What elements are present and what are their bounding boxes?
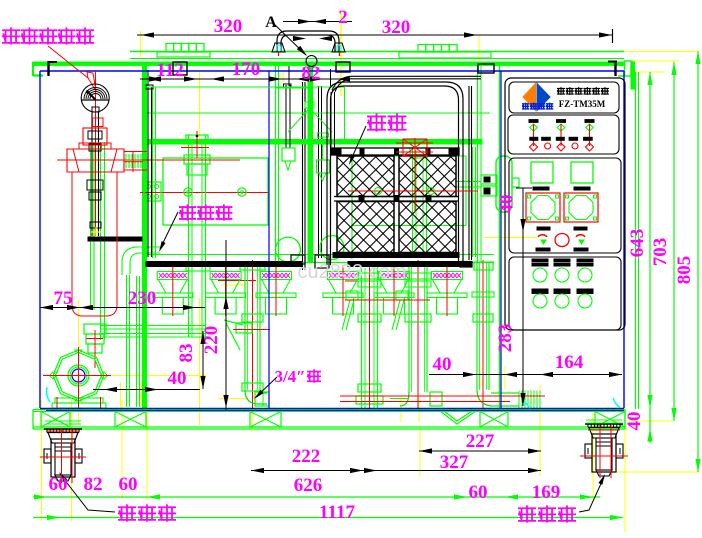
- gauge stem: [91, 112, 93, 236]
- lid clamp corner right: [608, 61, 617, 63]
- green heater box behind mesh: [351, 156, 353, 259]
- leader 3/4 pipe: [256, 377, 277, 397]
- handle foot right: [332, 43, 345, 52]
- pump pipe vertical: [90, 142, 92, 310]
- pump body: [53, 350, 104, 401]
- centerline x122 bottom: [121, 400, 123, 499]
- lid clamp sq3: [478, 64, 494, 73]
- svg-text:FZ-TM35M: FZ-TM35M: [559, 99, 606, 109]
- valve lever foot3: [346, 291, 358, 300]
- basket red centerline h: [348, 190, 478, 192]
- lid handle: [277, 31, 339, 52]
- red valve centerline: [345, 299, 430, 301]
- svg-text:230: 230: [128, 288, 157, 309]
- label filter: [179, 204, 196, 220]
- svg-text:283: 283: [495, 324, 516, 353]
- tank outline right: [623, 71, 625, 408]
- dim 320 line: [137, 34, 612, 36]
- panel lower switches r1: [532, 263, 548, 266]
- basket mid band: [334, 196, 458, 198]
- svg-text:320: 320: [214, 16, 243, 37]
- centerline handle vertical: [340, 11, 342, 96]
- panel knob box: [509, 158, 621, 253]
- transducer foot 5: [379, 272, 410, 280]
- centerline x419 bottom: [418, 398, 420, 422]
- tank outline mid2: [500, 71, 502, 408]
- drain cup left: [276, 237, 301, 262]
- transducer foot 6: [432, 272, 463, 280]
- machine top rail: [33, 62, 624, 65]
- dim line 626 row: [33, 496, 600, 498]
- svg-text:82: 82: [302, 63, 321, 84]
- centerline right y72: [628, 71, 665, 73]
- centerline x401 bottom: [400, 396, 402, 422]
- left tank pipe: [188, 135, 190, 337]
- lid lower line: [130, 58, 624, 60]
- green rail right of mesh: [472, 147, 474, 257]
- svg-text:A: A: [265, 14, 277, 31]
- drain pipe right2: [476, 262, 478, 390]
- svg-text:40: 40: [168, 368, 187, 389]
- tank drain elbow: [122, 247, 160, 275]
- frame X-brace 1: [41, 412, 70, 428]
- panel dash row3: [536, 248, 550, 251]
- drain pipe center: [244, 262, 246, 390]
- filter bolt right: [238, 188, 246, 196]
- frame X-brace 3: [250, 412, 281, 428]
- ext line x148: [147, 70, 149, 86]
- level tube black: [147, 87, 149, 257]
- svg-text:643: 643: [627, 229, 648, 258]
- caster fixed: [44, 428, 82, 430]
- cyan corner mark right: [613, 398, 620, 407]
- svg-text:60: 60: [469, 482, 488, 503]
- svg-text:169: 169: [532, 482, 561, 503]
- green pipe behind mesh: [412, 147, 414, 257]
- svg-text:164: 164: [555, 352, 584, 373]
- dim 320 arrows2: [293, 36, 306, 41]
- tank outline top: [40, 70, 624, 72]
- transducer foot 4: [328, 272, 359, 280]
- machine outer right wall: [635, 72, 637, 409]
- panel dash row2: [537, 227, 550, 230]
- frame X-brace 4: [480, 412, 508, 428]
- svg-text:40: 40: [433, 354, 452, 375]
- red tick pipes right: [345, 280, 376, 282]
- leader A: [272, 22, 306, 55]
- gauge centerline red: [95, 70, 97, 238]
- basket bottom band: [333, 253, 459, 258]
- leader filter: [160, 212, 178, 249]
- centerline right y61: [632, 60, 679, 62]
- leader fixed wheel: [60, 474, 115, 512]
- caster plate green L: [45, 420, 81, 422]
- centerline pump horizontal: [112, 375, 206, 377]
- dim line 805: [697, 51, 699, 472]
- lid clamp sq2: [336, 62, 350, 72]
- corner mark top left: [47, 61, 49, 76]
- centerline pump vertical: [78, 300, 80, 425]
- float switch right: [322, 137, 324, 160]
- svg-text:83: 83: [176, 344, 197, 363]
- svg-text:170: 170: [232, 59, 261, 80]
- leader swivel wheel: [579, 477, 604, 512]
- red drop loop: [72, 172, 117, 316]
- svg-text:626: 626: [294, 475, 323, 496]
- centerline x479 lid: [478, 35, 480, 63]
- logo text cn: [557, 87, 565, 95]
- centerline wheel left x71: [71, 400, 73, 521]
- centerline x480 ext40: [479, 366, 481, 388]
- gauge leader red: [48, 46, 88, 78]
- cyan mark mid: [524, 401, 530, 408]
- lid clamp tower left: [157, 52, 210, 57]
- tank outline mid1: [268, 71, 270, 408]
- label wash basket: [367, 113, 386, 131]
- dim 83 line: [202, 331, 204, 389]
- svg-text:112: 112: [156, 60, 183, 81]
- svg-text:60: 60: [119, 474, 138, 495]
- label oil gauge: [2, 27, 20, 44]
- red pipe centerline bottom: [340, 395, 545, 397]
- machine left wall: [143, 66, 147, 409]
- dim 227 line: [419, 450, 541, 452]
- lid slide rail: [350, 75, 481, 77]
- dim 222-327 line: [251, 470, 541, 472]
- centerline x505 ext40: [504, 366, 506, 388]
- ext line x330: [330, 69, 332, 86]
- lid top line: [130, 51, 624, 53]
- water level line 2: [143, 140, 482, 145]
- basket red flange: [403, 139, 427, 156]
- transducer foot 2: [210, 272, 241, 280]
- svg-text:1117: 1117: [319, 502, 355, 523]
- dim 220 line: [225, 240, 227, 410]
- machine right wall: [499, 65, 501, 409]
- lid clamp tower right: [399, 52, 491, 58]
- dim 2 line: [283, 21, 352, 23]
- svg-text:60: 60: [49, 474, 68, 495]
- pump elbow: [86, 334, 104, 344]
- panel lower switches r2: [532, 289, 548, 294]
- pump pipes horizontal: [100, 325, 206, 327]
- drain pipe c369: [361, 265, 363, 408]
- filter bracket: [144, 182, 161, 201]
- svg-text:cu2833.com: cu2833.com: [298, 261, 407, 283]
- water level line 1: [146, 112, 490, 114]
- wall bracket right: [481, 175, 497, 184]
- svg-text:327: 327: [440, 452, 469, 473]
- valve body red: [67, 149, 124, 172]
- tank divider wall: [275, 65, 277, 262]
- panel lower box: [509, 257, 621, 330]
- centerline x204 pipe: [199, 72, 201, 140]
- panel switch box: [508, 115, 619, 154]
- top-right notch: [625, 61, 632, 76]
- centerline x147 bottom: [146, 400, 148, 499]
- panel red ellipse: [555, 234, 569, 247]
- base frame rails: [33, 409, 625, 411]
- logo text blue: [522, 103, 529, 110]
- tank bottom green line: [146, 254, 494, 256]
- filter box: [163, 158, 268, 225]
- logo diamond: [523, 84, 536, 111]
- panel dash row1: [533, 187, 549, 190]
- centerline x625 bottom: [624, 408, 626, 532]
- tank inner top line: [146, 86, 344, 88]
- centerline y472 right: [610, 471, 699, 473]
- basket arch: [327, 82, 463, 265]
- handle foot left: [272, 43, 285, 52]
- valve lever pipe2: [396, 291, 408, 300]
- svg-text:75: 75: [54, 288, 73, 309]
- caster plate green R: [586, 419, 622, 421]
- centerline left pipe: [199, 298, 201, 425]
- svg-text:703: 703: [650, 238, 671, 267]
- dim 112-170-82 line: [140, 78, 345, 80]
- centerline yellow x120 x141: [120, 382, 122, 407]
- panel meter arcs: [538, 235, 547, 237]
- centerline foot2 tick: [222, 284, 246, 286]
- frame X-brace 2: [115, 412, 146, 428]
- svg-text:805: 805: [674, 256, 695, 285]
- centerline y399 under83: [218, 398, 248, 400]
- svg-text:40: 40: [497, 195, 518, 214]
- dim 164 line: [429, 374, 622, 376]
- centerline x420 ext: [419, 428, 421, 476]
- centerline top right horizontal: [488, 51, 697, 53]
- tank outline bottom: [40, 408, 624, 410]
- centerline tick x283: [282, 70, 284, 82]
- centerline x540 ext: [539, 385, 541, 476]
- basket top frame: [331, 148, 459, 155]
- dim line 703: [673, 62, 675, 421]
- tank bottom plate left: [146, 262, 302, 267]
- green flange under red: [410, 148, 427, 158]
- panel knob right: [564, 193, 598, 222]
- dim 40 pump line: [93, 389, 200, 391]
- gauge shelf cross: [91, 227, 101, 237]
- svg-text:227: 227: [466, 431, 495, 452]
- centerline x137 top: [140, 31, 142, 57]
- drain pipe right1: [408, 262, 410, 392]
- tank bottom plate right: [348, 262, 472, 267]
- panel green squares: [531, 162, 553, 183]
- panel switches: [529, 120, 538, 123]
- svg-text:320: 320: [382, 17, 411, 38]
- valve red box: [83, 128, 107, 145]
- centerline wall x145: [144, 67, 146, 260]
- pressure gauge: [81, 84, 109, 112]
- transducer foot 3: [261, 272, 292, 280]
- tank outline left: [39, 71, 41, 408]
- svg-text:3/4″: 3/4″: [274, 367, 305, 386]
- drain pipe valve handle: [224, 320, 243, 325]
- valve outlet flange: [125, 154, 127, 168]
- drain cup right: [320, 236, 344, 260]
- svg-text:82: 82: [84, 474, 103, 495]
- centerline wheel left x41: [41, 400, 43, 521]
- basket label leader: [350, 126, 366, 162]
- dim 283-40 line: [522, 188, 524, 406]
- dim 75-230 line: [40, 307, 205, 309]
- svg-text:2: 2: [338, 7, 348, 28]
- pump centerline: [43, 375, 111, 377]
- ext line x289: [288, 66, 290, 86]
- centerline drain x252: [251, 408, 253, 432]
- red tick foot2: [218, 280, 256, 282]
- float switch left: [285, 85, 287, 148]
- centerline y421 right: [628, 420, 673, 422]
- basket tank right wall: [477, 65, 479, 262]
- panel logo box: [509, 82, 619, 113]
- frame funnel: [440, 411, 476, 424]
- panel outline: [505, 78, 625, 330]
- panel knob left: [526, 193, 560, 222]
- detail circle A: [306, 56, 317, 67]
- filter red centerline: [140, 192, 268, 194]
- basket hanger rod: [468, 86, 470, 260]
- basket red centerline v: [414, 138, 416, 212]
- centerline wheel right x593: [592, 408, 594, 499]
- caster swivel: [585, 423, 623, 425]
- svg-text:40: 40: [624, 412, 645, 431]
- top-left corner post: [33, 62, 43, 76]
- dim line 643: [649, 72, 651, 408]
- basket tank left wall: [308, 65, 313, 262]
- gauge shelf: [88, 237, 142, 241]
- filter bolt left: [184, 188, 192, 196]
- transducer foot 1: [157, 272, 188, 280]
- svg-text:220: 220: [201, 326, 222, 355]
- cyan corner mark left: [46, 387, 50, 402]
- centerline panel y237: [484, 237, 537, 239]
- clamp knob right wall: [496, 156, 512, 212]
- lid clamp sq1: [173, 62, 187, 75]
- basket green bolt circles: [375, 188, 382, 195]
- label swivel wheel: [518, 505, 536, 522]
- dim line 1117: [33, 517, 623, 519]
- drain box small: [291, 255, 305, 264]
- top-right corner post: [631, 62, 635, 89]
- label fixed wheel: [118, 504, 136, 521]
- svg-text:222: 222: [292, 446, 321, 467]
- frame X-brace 5: [595, 412, 625, 428]
